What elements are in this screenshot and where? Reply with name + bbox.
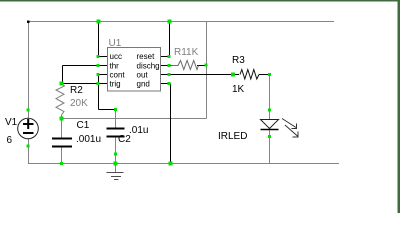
svg-text:cont: cont bbox=[110, 71, 126, 80]
svg-text:1K: 1K bbox=[232, 84, 245, 95]
svg-text:C2: C2 bbox=[118, 134, 131, 145]
svg-text:U1: U1 bbox=[109, 38, 122, 49]
svg-text:thr: thr bbox=[110, 62, 120, 71]
svg-text:C1: C1 bbox=[77, 120, 90, 131]
svg-text:.01u: .01u bbox=[129, 125, 148, 136]
svg-text:out: out bbox=[137, 71, 149, 80]
svg-text:trig: trig bbox=[110, 80, 121, 89]
svg-text:.001u: .001u bbox=[76, 134, 101, 145]
svg-text:gnd: gnd bbox=[137, 80, 150, 89]
svg-text:R11K: R11K bbox=[174, 47, 199, 58]
svg-text:reset: reset bbox=[137, 52, 156, 61]
svg-text:dischg: dischg bbox=[137, 62, 160, 71]
svg-text:V1: V1 bbox=[5, 117, 18, 128]
svg-text:ucc: ucc bbox=[110, 52, 122, 61]
svg-text:6: 6 bbox=[7, 135, 13, 146]
svg-text:R3: R3 bbox=[232, 55, 245, 66]
svg-text:20K: 20K bbox=[70, 98, 88, 109]
svg-text:IRLED: IRLED bbox=[218, 131, 247, 142]
svg-text:R2: R2 bbox=[70, 85, 83, 96]
